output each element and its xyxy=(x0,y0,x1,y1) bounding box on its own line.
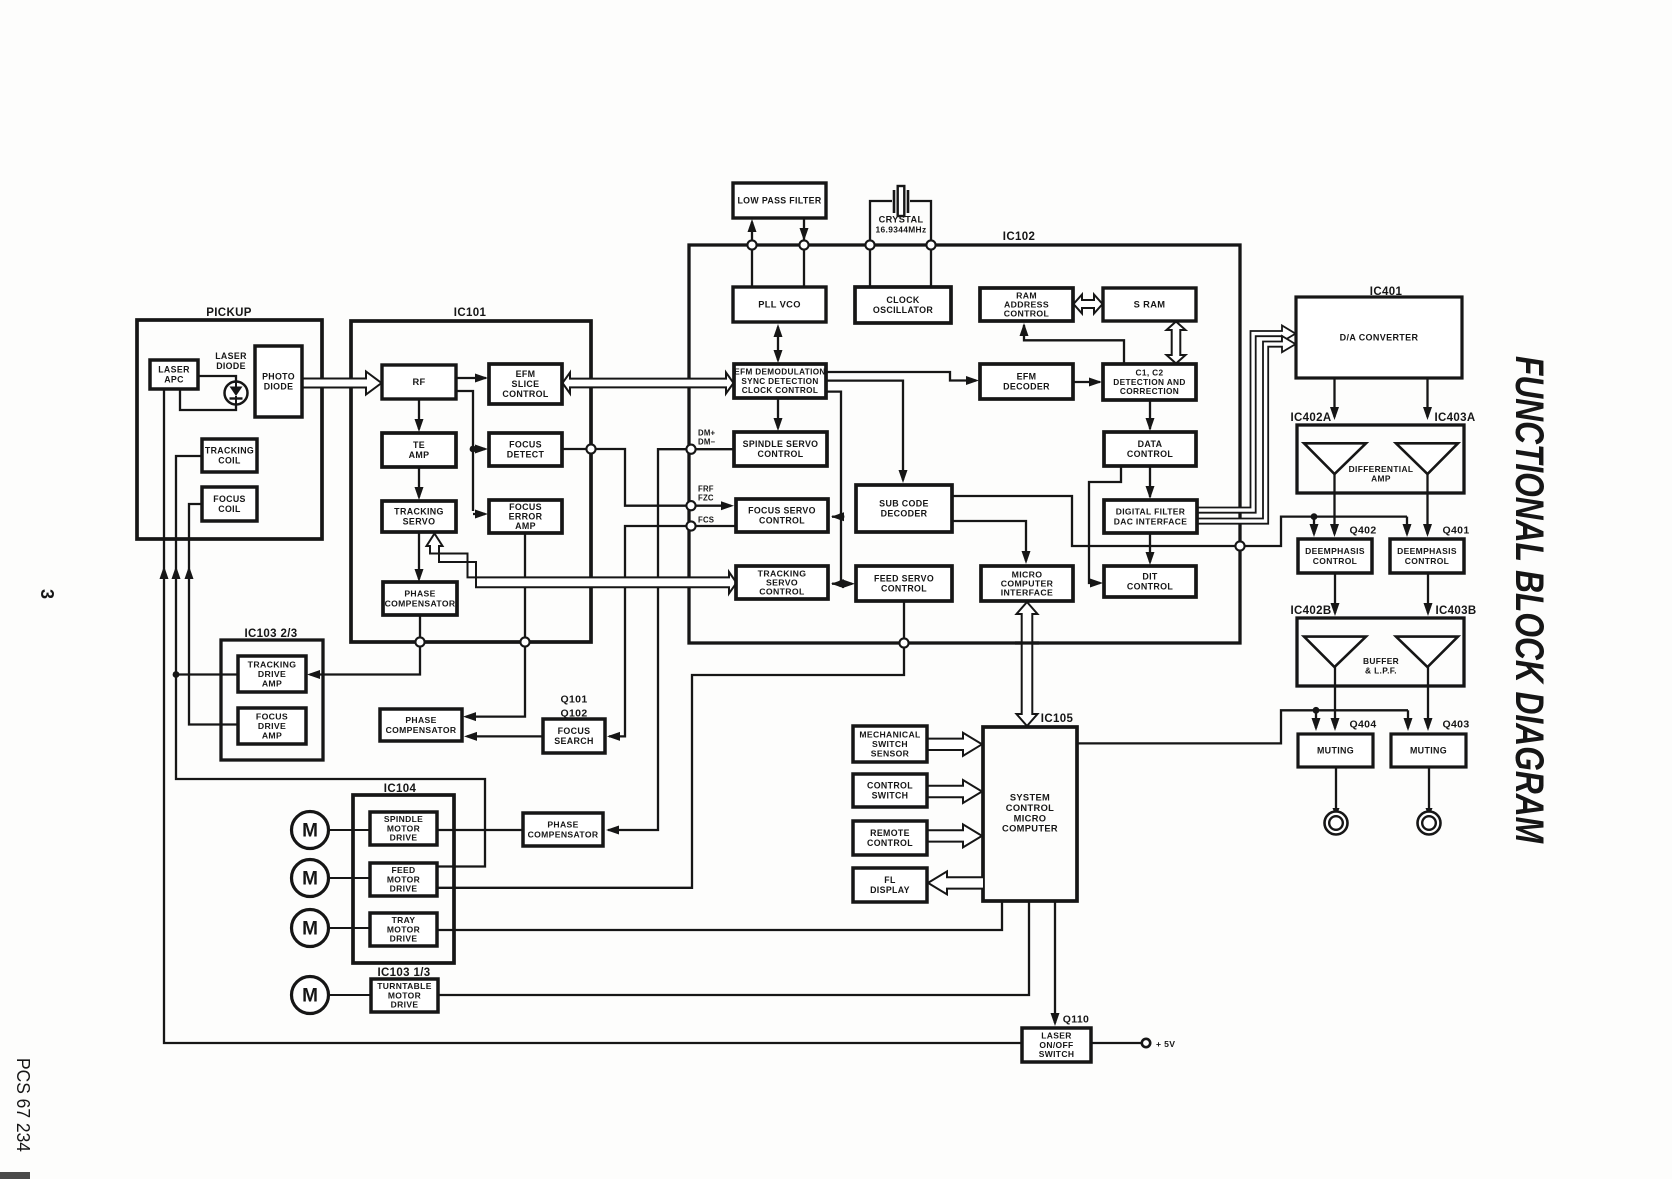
focus error amp xyxy=(489,500,562,533)
svg-text:CLOCK: CLOCK xyxy=(886,295,920,305)
spindle servo control xyxy=(734,432,827,466)
svg-text:FOCUS: FOCUS xyxy=(213,494,246,504)
svg-text:SWITCH: SWITCH xyxy=(872,790,909,800)
wire data control to digital filter xyxy=(1149,466,1151,497)
muting Q403 xyxy=(1391,734,1466,767)
scan edge mark bottom left xyxy=(0,1172,30,1179)
wire c1c2 to data control xyxy=(1149,400,1151,429)
svg-text:FOCUS: FOCUS xyxy=(509,440,542,450)
c1 c2 detection and correction xyxy=(1103,364,1196,400)
pll vco xyxy=(733,287,826,322)
wire rf to efm slice control xyxy=(456,377,486,379)
svg-text:LASER: LASER xyxy=(215,351,247,361)
wire sub code decoder to micro computer interface xyxy=(952,521,1026,561)
focus search xyxy=(543,719,605,753)
svg-text:MUTING: MUTING xyxy=(1410,746,1447,756)
svg-text:EFM: EFM xyxy=(1017,372,1037,382)
motor M tray xyxy=(292,910,371,947)
svg-text:SWITCH: SWITCH xyxy=(1039,1049,1075,1059)
svg-text:DATA: DATA xyxy=(1138,439,1163,449)
wire Q110 to +5V terminal xyxy=(1091,1042,1141,1044)
svg-text:CONTROL: CONTROL xyxy=(759,515,805,525)
bus ram address control and s ram xyxy=(1074,295,1103,314)
tracking servo xyxy=(382,501,456,532)
svg-text:M: M xyxy=(302,986,318,1007)
svg-text:IC101: IC101 xyxy=(454,307,487,319)
svg-text:S RAM: S RAM xyxy=(1134,300,1166,310)
efm decoder xyxy=(980,364,1073,399)
d/a converter xyxy=(1296,297,1462,378)
svg-text:IC402B: IC402B xyxy=(1290,605,1331,617)
svg-text:EFM DEMODULATION: EFM DEMODULATION xyxy=(734,367,825,376)
svg-text:SYNC DETECTION: SYNC DETECTION xyxy=(741,377,818,386)
svg-text:Q110: Q110 xyxy=(1063,1014,1090,1026)
svg-text:D/A CONVERTER: D/A CONVERTER xyxy=(1340,333,1419,343)
svg-text:Q404: Q404 xyxy=(1349,719,1376,731)
low pass filter xyxy=(733,183,826,218)
svg-text:CONTROL: CONTROL xyxy=(867,838,913,848)
motor M spindle xyxy=(292,812,371,849)
wire muting to output jack right xyxy=(1428,767,1430,814)
wire branch into tracking servo control right edge xyxy=(832,583,841,585)
pin circle ic101 bottom phase comp xyxy=(415,637,424,646)
svg-text:SLICE: SLICE xyxy=(512,379,540,389)
double arrow pll vco and efm demodulation xyxy=(777,327,779,360)
remote control xyxy=(853,821,927,855)
bus efm slice control and efm demodulation xyxy=(563,373,734,394)
svg-text:COIL: COIL xyxy=(218,455,241,465)
wire crystal right lead xyxy=(910,201,931,245)
rf amp xyxy=(382,365,456,399)
efm demodulation sync detection clock control xyxy=(734,364,826,398)
wire crystal to clock oscillator legs xyxy=(869,245,871,287)
wire crystal left lead xyxy=(870,201,892,245)
phase compensator ic101 xyxy=(383,582,457,615)
svg-text:M: M xyxy=(302,919,318,940)
efm slice control xyxy=(489,364,562,404)
wire efm demodulation servo branch xyxy=(826,392,841,584)
wire rf to te amp xyxy=(418,399,420,429)
svg-text:& L.P.F.: & L.P.F. xyxy=(1365,666,1397,676)
differential amp block xyxy=(1297,425,1464,493)
pin circle ic102 left FRF FZC xyxy=(686,501,695,510)
IC103 2/3 block outline xyxy=(221,640,323,760)
svg-text:M: M xyxy=(302,821,318,842)
wire deemphasis to buffer left xyxy=(1334,573,1336,613)
svg-text:IC104: IC104 xyxy=(384,783,417,795)
IC104 block outline xyxy=(353,795,454,963)
wire branch into focus servo control right edge xyxy=(832,516,841,518)
wire c1c2 to ram address control xyxy=(1024,325,1124,364)
wire branch into feed servo control left edge xyxy=(841,583,852,585)
svg-text:CONTROL: CONTROL xyxy=(1127,449,1174,459)
svg-text:DIODE: DIODE xyxy=(216,361,246,371)
pin circle ic101 right focus detect xyxy=(586,444,595,453)
svg-text:PLL VCO: PLL VCO xyxy=(758,300,801,310)
laser on/off switch xyxy=(1022,1028,1091,1062)
svg-text:PHASE: PHASE xyxy=(547,820,578,830)
svg-text:TRACKING: TRACKING xyxy=(394,507,444,517)
svg-text:MUTING: MUTING xyxy=(1317,746,1354,756)
svg-text:AMP: AMP xyxy=(409,450,430,460)
pin circle ic102 left FCS xyxy=(686,521,695,530)
turntable motor drive xyxy=(371,979,438,1012)
clock oscillator xyxy=(855,287,951,323)
svg-text:+ 5V: + 5V xyxy=(1156,1039,1175,1049)
arrow into muting Q404 xyxy=(1315,710,1317,728)
focus drive amp xyxy=(238,708,306,744)
svg-text:PCS 67 234: PCS 67 234 xyxy=(13,1058,33,1152)
bus remote control to ic105 xyxy=(927,824,982,847)
focus detect xyxy=(489,433,562,466)
wire differential amp to deemphasis Q402 xyxy=(1333,474,1335,534)
wire buffer to muting left xyxy=(1334,667,1336,728)
fl display xyxy=(853,868,927,902)
svg-text:CONTROL: CONTROL xyxy=(502,389,549,399)
pin circle ic102 top crystal left xyxy=(865,240,874,249)
wire focus coil to focus drive amp xyxy=(189,504,238,725)
focus servo control xyxy=(736,499,828,532)
wire laser apc to laser diode xyxy=(198,376,236,382)
output jack right xyxy=(1418,812,1441,835)
svg-text:DRIVE: DRIVE xyxy=(390,833,418,843)
output jack left xyxy=(1325,812,1348,835)
svg-text:16.9344MHz: 16.9344MHz xyxy=(876,224,927,234)
wire tracking drive amp output xyxy=(176,673,238,675)
svg-text:CONTROL: CONTROL xyxy=(881,583,927,593)
pin circle ic102 right deemphasis line xyxy=(1235,541,1244,550)
svg-text:RF: RF xyxy=(412,377,425,387)
focus coil xyxy=(202,487,257,521)
wire differential amp to deemphasis Q401 xyxy=(1426,474,1428,534)
svg-text:DRIVE: DRIVE xyxy=(391,1000,419,1010)
tracking servo control xyxy=(736,566,828,599)
pin circle ic102 top crystal right xyxy=(926,240,935,249)
wire FCS into focus servo control xyxy=(691,525,736,527)
buffer triangle left xyxy=(1304,637,1366,667)
bus micro computer interface and ic105 xyxy=(1017,602,1038,726)
wire ic105 to laser on/off switch Q110 xyxy=(1054,901,1056,1023)
bus digital filter to d/a converter lower xyxy=(1197,336,1296,524)
svg-text:PHASE: PHASE xyxy=(405,715,436,725)
svg-text:M: M xyxy=(302,869,318,890)
s ram xyxy=(1103,288,1196,321)
te amp xyxy=(382,433,456,467)
pin circle ic101 bottom focus error xyxy=(520,637,529,646)
svg-text:OSCILLATOR: OSCILLATOR xyxy=(873,305,934,315)
ram address control xyxy=(980,288,1073,321)
svg-text:CLOCK CONTROL: CLOCK CONTROL xyxy=(742,386,818,395)
wire FCS to focus search xyxy=(609,526,691,736)
wire buffer to muting right xyxy=(1427,667,1429,728)
svg-text:DRIVE: DRIVE xyxy=(258,721,286,731)
wire data control to dit control xyxy=(1089,466,1121,583)
svg-text:FUNCTIONAL BLOCK DIAGRAM: FUNCTIONAL BLOCK DIAGRAM xyxy=(1507,356,1551,844)
+5V terminal circle xyxy=(1142,1039,1150,1047)
junction dot tracking drive xyxy=(173,671,180,678)
svg-text:AMP: AMP xyxy=(262,731,282,741)
pin circle ic102 bottom feed servo xyxy=(899,638,908,647)
wire low pass filter left leg / pll vco xyxy=(751,245,753,287)
svg-text:DIFFERENTIAL: DIFFERENTIAL xyxy=(1349,464,1414,474)
svg-text:PHOTO: PHOTO xyxy=(262,372,295,382)
svg-text:Q101: Q101 xyxy=(560,694,587,706)
junction dot deemphasis feed xyxy=(1311,513,1318,520)
junction dot muting feed xyxy=(1313,707,1320,714)
svg-text:AMP: AMP xyxy=(1371,474,1391,484)
svg-text:Q403: Q403 xyxy=(1442,719,1469,731)
svg-text:CONTROL: CONTROL xyxy=(1127,582,1174,592)
svg-text:COMPUTER: COMPUTER xyxy=(1002,824,1058,834)
bus tracking servo to tracking servo control xyxy=(427,534,737,594)
wire focus detect output to focus servo control FRF xyxy=(562,449,691,506)
svg-text:CONTROL: CONTROL xyxy=(759,587,805,597)
tray motor drive xyxy=(370,913,437,946)
laser apc xyxy=(150,360,198,389)
wire spindle motor drive to phase compensator 3 xyxy=(437,829,523,831)
micro computer interface xyxy=(981,566,1073,601)
svg-text:IC402A: IC402A xyxy=(1290,412,1331,424)
svg-text:FOCUS: FOCUS xyxy=(558,726,591,736)
bus control switch to ic105 xyxy=(927,780,982,803)
wire tracking servo to phase compensator xyxy=(418,532,420,579)
svg-text:DECODER: DECODER xyxy=(1003,382,1050,392)
tracking drive amp xyxy=(238,656,306,692)
svg-text:DECODER: DECODER xyxy=(881,509,928,519)
svg-text:BUFFER: BUFFER xyxy=(1363,656,1399,666)
svg-text:CORRECTION: CORRECTION xyxy=(1120,386,1179,396)
svg-text:IC103 2/3: IC103 2/3 xyxy=(244,628,297,640)
control switch xyxy=(853,774,927,807)
wire efm demodulation to spindle servo control xyxy=(777,398,779,428)
svg-text:REMOTE: REMOTE xyxy=(870,828,910,838)
svg-text:PHASE: PHASE xyxy=(404,589,435,599)
svg-text:CONTROL: CONTROL xyxy=(1004,309,1050,319)
junction dot servo branch at focus row xyxy=(838,513,845,520)
svg-text:FCS: FCS xyxy=(698,516,714,525)
dit control xyxy=(1104,566,1196,597)
svg-text:TE: TE xyxy=(413,440,425,450)
wire tracking coil to tracking drive amp and feed branch xyxy=(176,456,485,867)
digital filter dac interface xyxy=(1104,500,1197,533)
wire muting to output jack left xyxy=(1335,767,1337,814)
arrow into deemphasis Q402 xyxy=(1313,517,1315,534)
svg-text:DRIVE: DRIVE xyxy=(390,934,418,944)
wire low pass filter right leg / pll vco xyxy=(803,218,805,287)
svg-text:LASER: LASER xyxy=(158,365,190,375)
pin circle ic102 top pll left xyxy=(747,240,756,249)
svg-text:AMP: AMP xyxy=(515,521,536,531)
feed motor drive xyxy=(370,863,437,896)
svg-text:DM−: DM− xyxy=(698,438,716,447)
svg-text:Q401: Q401 xyxy=(1442,525,1469,537)
svg-text:IC103 1/3: IC103 1/3 xyxy=(377,967,430,979)
wire ic105 to muting line xyxy=(1077,710,1408,743)
pickup block outline xyxy=(137,320,322,539)
junction dot servo branch at tracking row xyxy=(838,580,845,587)
svg-text:DIGITAL FILTER: DIGITAL FILTER xyxy=(1116,506,1186,516)
feed servo control xyxy=(856,566,952,601)
svg-text:CONTROL: CONTROL xyxy=(758,449,804,459)
svg-text:SPINDLE SERVO: SPINDLE SERVO xyxy=(743,439,819,449)
svg-text:SERVO: SERVO xyxy=(403,517,436,527)
wire d/a converter to differential amp right xyxy=(1426,378,1428,417)
svg-text:IC403A: IC403A xyxy=(1434,412,1475,424)
IC102 block outline xyxy=(689,245,1240,643)
svg-text:MICRO: MICRO xyxy=(1014,813,1047,823)
svg-text:3: 3 xyxy=(37,589,57,599)
wire laser diode to laser apc return xyxy=(180,389,236,410)
mechanical switch sensor xyxy=(853,726,927,762)
deemphasis control Q402 xyxy=(1298,539,1372,573)
buffer lpf block xyxy=(1297,618,1464,686)
phase compensator 2 xyxy=(380,709,462,741)
sub code decoder xyxy=(856,485,952,532)
svg-text:CRYSTAL: CRYSTAL xyxy=(879,215,924,225)
wire efm demodulation to sub code decoder xyxy=(826,381,903,480)
deemphasis control Q401 xyxy=(1390,539,1464,573)
svg-text:SENSOR: SENSOR xyxy=(871,748,910,758)
muting Q404 xyxy=(1298,734,1373,767)
wire spindle servo control DM output to phase compensator 3 xyxy=(608,449,734,830)
svg-text:FL: FL xyxy=(884,875,896,885)
motor M feed xyxy=(292,860,371,897)
wire laser on/off line from Q110 up into pickup to laser apc xyxy=(164,389,1022,1043)
svg-text:SUB CODE: SUB CODE xyxy=(879,499,929,509)
svg-text:INTERFACE: INTERFACE xyxy=(1001,588,1053,598)
wire branch into focus detect xyxy=(473,448,485,450)
svg-text:IC105: IC105 xyxy=(1041,713,1074,725)
differential amp triangle right xyxy=(1396,443,1458,474)
wire deemphasis to buffer right xyxy=(1427,573,1429,613)
bus s ram and c1c2 xyxy=(1167,322,1186,364)
svg-text:FZC: FZC xyxy=(698,494,714,503)
svg-text:DISPLAY: DISPLAY xyxy=(870,885,910,895)
svg-text:DETECT: DETECT xyxy=(507,450,545,460)
wire te amp to tracking servo xyxy=(418,467,420,497)
svg-text:Q402: Q402 xyxy=(1349,525,1376,537)
svg-text:EFM: EFM xyxy=(516,369,536,379)
svg-text:DIT: DIT xyxy=(1142,572,1158,582)
arrow into muting Q403 xyxy=(1407,710,1409,728)
arrow into deemphasis Q401 xyxy=(1406,517,1408,534)
svg-text:DRIVE: DRIVE xyxy=(390,884,418,894)
phase compensator 3 xyxy=(523,813,603,846)
wire ic101 phase compensator to tracking drive amp xyxy=(310,615,420,675)
svg-text:SYSTEM: SYSTEM xyxy=(1010,793,1050,803)
svg-text:IC102: IC102 xyxy=(1003,231,1035,243)
svg-text:CONTROL: CONTROL xyxy=(1405,556,1449,566)
svg-text:CONTROL: CONTROL xyxy=(1313,556,1357,566)
svg-text:FOCUS: FOCUS xyxy=(256,711,288,721)
wire efm decoder to c1c2 xyxy=(1073,381,1100,383)
wire ic105 to turntable motor drive xyxy=(438,901,1029,995)
buffer triangle right xyxy=(1396,637,1458,667)
svg-text:DAC INTERFACE: DAC INTERFACE xyxy=(1114,516,1188,526)
svg-text:TRACKING: TRACKING xyxy=(248,659,297,669)
svg-text:DEEMPHASIS: DEEMPHASIS xyxy=(1305,546,1365,556)
wire efm demodulation to efm decoder xyxy=(826,372,976,381)
crystal symbol xyxy=(894,186,908,216)
bus digital filter to d/a converter upper xyxy=(1197,326,1296,513)
tracking coil xyxy=(202,439,257,472)
bus photo diode to rf xyxy=(302,372,382,395)
wire feed servo control to feed motor drive xyxy=(437,601,904,888)
wire rf down branch to focus detect and focus error amp xyxy=(456,391,473,511)
bus ic105 to fl display xyxy=(928,871,983,894)
wire digital filter to dit control xyxy=(1149,533,1151,562)
svg-text:FRF: FRF xyxy=(698,485,714,494)
svg-text:PICKUP: PICKUP xyxy=(206,307,252,319)
spindle motor drive xyxy=(370,812,437,845)
svg-text:IC403B: IC403B xyxy=(1435,605,1476,617)
ic102 bottom edge over bus xyxy=(1015,641,1039,644)
pin circle ic102 left DM xyxy=(686,445,695,454)
wire focus error amp to phase compensator 2 upper input xyxy=(466,533,525,717)
svg-text:COMPENSATOR: COMPENSATOR xyxy=(386,725,457,735)
junction dot rf branch xyxy=(470,446,477,453)
svg-text:COMPENSATOR: COMPENSATOR xyxy=(385,598,456,608)
motor M turntable xyxy=(292,977,372,1014)
svg-text:FOCUS SERVO: FOCUS SERVO xyxy=(748,506,816,516)
svg-text:COMPENSATOR: COMPENSATOR xyxy=(528,829,599,839)
svg-text:CONTROL: CONTROL xyxy=(1006,803,1054,813)
wire d/a converter to differential amp left xyxy=(1333,378,1335,417)
svg-text:DRIVE: DRIVE xyxy=(258,669,286,679)
svg-text:LOW PASS FILTER: LOW PASS FILTER xyxy=(737,196,821,206)
svg-text:DM+: DM+ xyxy=(698,429,716,438)
svg-text:CONTROL: CONTROL xyxy=(867,781,913,791)
svg-text:APC: APC xyxy=(164,374,184,384)
IC101 block outline xyxy=(351,321,591,642)
svg-text:SEARCH: SEARCH xyxy=(554,736,594,746)
pin circle ic102 top pll right xyxy=(799,240,808,249)
wire branch into focus error amp xyxy=(473,513,485,515)
svg-text:DIODE: DIODE xyxy=(264,381,294,391)
data control xyxy=(1104,432,1196,466)
wire FRF into focus servo control xyxy=(691,505,731,507)
laser diode symbol xyxy=(225,382,248,405)
svg-text:TRACKING: TRACKING xyxy=(205,446,254,456)
svg-text:FEED SERVO: FEED SERVO xyxy=(874,574,934,584)
svg-text:AMP: AMP xyxy=(262,679,282,689)
IC105 block outline (system control micro computer) xyxy=(983,727,1077,901)
wire focus search to phase compensator 2 xyxy=(467,735,543,737)
differential amp triangle left xyxy=(1304,443,1366,474)
wire sub code decoder to deemphasis controls xyxy=(952,496,1407,546)
wire ic105 to tray motor drive xyxy=(437,901,1002,930)
svg-text:COIL: COIL xyxy=(218,504,241,514)
svg-text:DEEMPHASIS: DEEMPHASIS xyxy=(1397,546,1457,556)
photo diode xyxy=(255,346,302,417)
bus mechanical switch sensor to ic105 xyxy=(927,733,982,756)
